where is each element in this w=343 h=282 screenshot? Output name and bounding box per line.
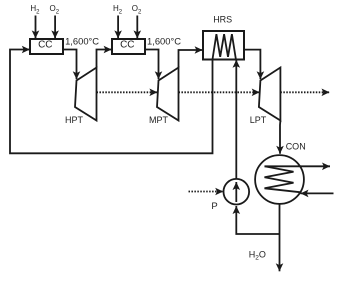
turbine MPT bbox=[157, 68, 179, 121]
wire HRS outlet to LPT inlet bbox=[244, 50, 260, 80]
combustion chamber CC2 bbox=[112, 39, 145, 54]
wire shaft HPT to MPT (dashed) bbox=[97, 91, 158, 93]
wire LPT exhaust to condenser bbox=[279, 121, 281, 154]
wire MPT exhaust to HRS inlet bbox=[179, 50, 203, 68]
svg-text:H2: H2 bbox=[30, 4, 40, 16]
svg-text:CC: CC bbox=[38, 40, 52, 51]
wire O2 feed arrow to CC2 bbox=[136, 16, 138, 39]
condenser cooling coil zigzag bbox=[265, 166, 302, 192]
wire condenser drain down to tee bbox=[279, 204, 281, 234]
pump P circle bbox=[224, 179, 250, 205]
wire pump discharge up to HRS coil bbox=[235, 60, 237, 179]
wire recycle loop from HRS coil back to CC1 inlet bbox=[10, 50, 213, 154]
wire H2 feed arrow to CC1 bbox=[35, 16, 37, 39]
wire HPT exhaust to CC2 inlet bbox=[97, 50, 112, 68]
svg-text:1,600°C: 1,600°C bbox=[147, 35, 181, 46]
svg-text:H2: H2 bbox=[113, 4, 123, 16]
svg-text:HRS: HRS bbox=[213, 14, 232, 24]
HRS internal coil zigzag bbox=[213, 34, 236, 59]
combustion chamber CC1 bbox=[30, 39, 63, 54]
turbine LPT bbox=[259, 68, 281, 121]
svg-text:P: P bbox=[211, 201, 217, 212]
cooling water outlet line bbox=[265, 165, 331, 167]
cooling water inlet line bbox=[301, 192, 334, 194]
wire shaft LPT output (dashed) bbox=[280, 91, 329, 93]
svg-text:O2: O2 bbox=[50, 4, 60, 16]
svg-text:CC: CC bbox=[120, 40, 134, 51]
svg-text:1,600°C: 1,600°C bbox=[65, 35, 99, 46]
svg-text:HPT: HPT bbox=[65, 115, 84, 125]
wire shaft MPT to LPT (dashed) bbox=[179, 91, 260, 93]
pump internal up arrow bbox=[235, 182, 237, 202]
svg-text:LPT: LPT bbox=[250, 115, 267, 125]
svg-text:H2O: H2O bbox=[249, 250, 266, 262]
svg-text:O2: O2 bbox=[132, 4, 142, 16]
wire H2O product outlet bbox=[279, 234, 281, 271]
wire tee to pump suction bbox=[236, 206, 279, 234]
condenser CON circle bbox=[255, 155, 333, 204]
wire H2 feed arrow to CC2 bbox=[117, 16, 119, 39]
heat recovery system HRS box bbox=[203, 31, 244, 60]
wire CC1 outlet to HPT inlet bbox=[63, 50, 77, 80]
wire pump work input (dashed) bbox=[189, 191, 224, 193]
wire O2 feed arrow to CC1 bbox=[54, 16, 56, 39]
svg-text:MPT: MPT bbox=[149, 115, 169, 125]
wire CC2 outlet to MPT inlet bbox=[145, 50, 159, 80]
svg-text:CON: CON bbox=[286, 141, 306, 151]
turbine HPT bbox=[75, 68, 97, 121]
